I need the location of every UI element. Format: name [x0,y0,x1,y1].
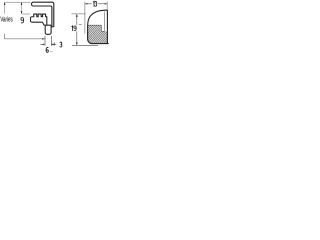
wire: teeth-tip extension line [22,13,30,15]
profile top arm inner edge + right wall inner [33,6,52,26]
dim 13 at top [84,2,86,34]
wire: top extension line [4,1,30,3]
bottom tab [45,25,51,34]
profile top arm outer edge + right wall outer [33,2,53,27]
dim Varies: vertical line with up arrow [4,3,6,14]
serrated jaw: teeth along top [32,14,47,25]
section outline [88,10,109,44]
small tick near 19 [79,23,82,25]
inner groove step lines [88,25,105,31]
label 9 [21,18,24,23]
dim 9: vertical line with arrows both ends [21,3,23,14]
dims 6 and 3 chained at bottom [44,36,46,46]
dim 19 at left [71,13,85,15]
label 13 [92,1,95,6]
label 3 [60,42,62,47]
label 6 [46,47,48,52]
varies dim: lower jog leader to tab [4,34,6,39]
section hatch (45-deg lines) [60,16,142,50]
faint short mark bottom center [50,51,53,53]
label 19 [71,26,74,31]
svg-text:Varies: Varies [0,16,13,23]
top arm left rounded cap [32,2,34,6]
jaw left end and bottom edge with step down to ledge [31,17,52,25]
